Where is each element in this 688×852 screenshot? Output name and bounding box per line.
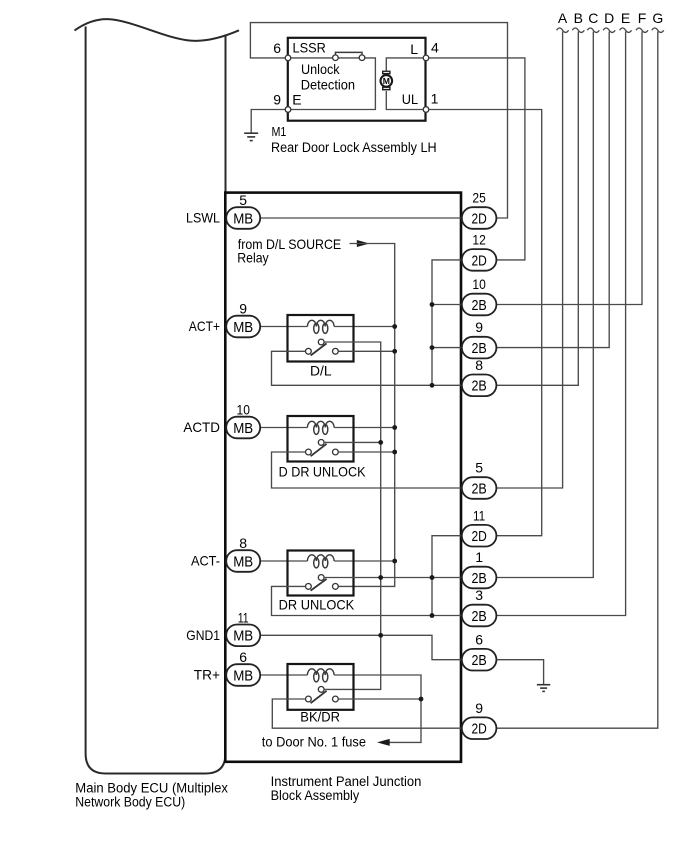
wire ACT- coil row: [260, 560, 394, 562]
connector 2B pin 1: [462, 549, 497, 588]
svg-text:2B: 2B: [471, 297, 486, 314]
svg-text:10: 10: [237, 402, 251, 418]
label from D/L SOURCE Relay: [237, 236, 341, 266]
svg-text:2B: 2B: [471, 570, 486, 587]
wire ACT+ coil row: [260, 326, 394, 328]
svg-text:2B: 2B: [471, 378, 486, 395]
relay D DR UNLOCK coil: [307, 421, 334, 427]
connector MB pin 6 (TR+): [226, 649, 260, 686]
svg-text:Main Body ECU (Multiplex: Main Body ECU (Multiplex: [75, 781, 228, 796]
pin 9 E: [273, 91, 301, 107]
wire BK/DR right contact: [338, 698, 421, 700]
svg-text:2D: 2D: [471, 528, 486, 545]
svg-text:MB: MB: [233, 628, 253, 645]
svg-text:1: 1: [431, 91, 439, 107]
svg-text:3: 3: [475, 587, 483, 603]
unlock detection switch contact circles: [333, 55, 365, 61]
motor M wire branch: [386, 58, 424, 110]
pin 6 LSSR: [273, 40, 326, 56]
svg-text:1: 1: [475, 549, 483, 565]
svg-text:A: A: [558, 10, 568, 26]
svg-text:8: 8: [475, 357, 483, 373]
node C (vertical line with break): [496, 10, 599, 578]
svg-text:DR UNLOCK: DR UNLOCK: [279, 597, 355, 613]
connector 2B pin 10: [462, 276, 497, 315]
wire pin1 UL to 11/2D: [426, 110, 542, 536]
wire D/L right contact: [338, 350, 394, 352]
svg-text:to Door No. 1 fuse: to Door No. 1 fuse: [262, 733, 366, 749]
svg-text:D DR UNLOCK: D DR UNLOCK: [279, 463, 366, 479]
svg-text:11: 11: [473, 507, 485, 523]
svg-text:MB: MB: [233, 210, 253, 227]
ground symbol (M1): [244, 133, 258, 140]
svg-text:Unlock: Unlock: [301, 61, 340, 77]
svg-text:9: 9: [239, 301, 247, 317]
relay D DR UNLOCK switch: [306, 440, 339, 457]
svg-text:GND1: GND1: [186, 627, 220, 643]
svg-text:Detection: Detection: [301, 76, 355, 92]
svg-text:Rear Door Lock Assembly LH: Rear Door Lock Assembly LH: [271, 140, 437, 155]
node E (vertical line with break): [496, 10, 631, 616]
motor M symbol: [381, 71, 393, 91]
connector 2B pin 6: [462, 631, 497, 670]
svg-text:ACT+: ACT+: [189, 318, 220, 334]
svg-text:9: 9: [475, 319, 483, 335]
svg-text:E: E: [292, 91, 301, 107]
wire DR UNLOCK left contact wrap to 3/2B: [272, 586, 462, 615]
connector 2B pin 8: [462, 357, 497, 396]
svg-text:2B: 2B: [471, 608, 486, 625]
svg-text:C: C: [588, 10, 598, 26]
junction dots: [378, 302, 434, 701]
svg-text:BK/DR: BK/DR: [300, 708, 340, 724]
svg-text:2D: 2D: [471, 210, 486, 227]
svg-text:MB: MB: [233, 553, 253, 570]
svg-text:Instrument Panel Junction: Instrument Panel Junction: [271, 774, 422, 789]
connector 2B pin 9: [462, 319, 497, 358]
svg-text:4: 4: [431, 40, 439, 56]
rear door lock assembly M1 outer box: [288, 38, 426, 121]
relay BK/DR box: [288, 664, 354, 710]
unlock detection inner box: [288, 58, 375, 110]
arrow from D/L SOURCE: [357, 240, 370, 247]
svg-text:12: 12: [472, 232, 486, 248]
pin 1 UL: [402, 91, 439, 108]
relay BK/DR switch: [306, 687, 339, 704]
connector MB pin 8 (ACT-): [226, 535, 260, 572]
connector 2D pin 11: [462, 507, 497, 546]
svg-text:Relay: Relay: [237, 250, 268, 266]
Instrument Panel Junction Block box: [225, 193, 461, 762]
svg-text:MB: MB: [233, 667, 253, 684]
svg-text:2D: 2D: [471, 252, 486, 269]
svg-text:ACT-: ACT-: [191, 553, 220, 569]
node F (vertical line with break): [496, 10, 648, 305]
relay D/L coil: [307, 320, 334, 326]
relay DR UNLOCK box: [288, 551, 354, 596]
unlock detection switch bridge: [335, 52, 362, 55]
wire 6/2B to ground: [496, 660, 543, 685]
svg-text:2B: 2B: [471, 480, 486, 497]
svg-text:L: L: [410, 41, 418, 57]
relay D/L box: [288, 315, 354, 362]
connector MB pin 9 (ACT+): [226, 301, 260, 338]
wire pin6 wrap to 25/2D: [250, 23, 507, 218]
ground symbol (6/2B): [537, 685, 550, 692]
wire D/L top contact to ground chain (down to BK/DR): [324, 342, 381, 689]
node G (vertical line with break): [496, 10, 663, 728]
relay BK/DR coil: [307, 669, 334, 675]
wire 12/2D inner chain down to 8/2B row: [432, 260, 462, 385]
svg-text:E: E: [621, 10, 630, 26]
svg-text:MB: MB: [233, 420, 253, 437]
connector MB pin 10 (ACTD): [226, 402, 260, 439]
svg-text:10: 10: [472, 276, 486, 292]
wire D DR UNLOCK right contact: [338, 451, 394, 453]
svg-text:M: M: [383, 76, 390, 86]
label Main Body ECU: [75, 781, 228, 810]
wire pin9 to ground: [251, 110, 288, 133]
svg-text:M1: M1: [272, 124, 287, 139]
svg-text:MB: MB: [233, 319, 253, 336]
wire from D/L SOURCE feed chain: [338, 244, 395, 587]
node B (vertical line with break): [496, 10, 584, 385]
svg-text:8: 8: [239, 535, 247, 551]
svg-text:5: 5: [239, 192, 247, 208]
wire pin4 L to 12/2D: [426, 58, 525, 260]
svg-text:F: F: [638, 10, 647, 26]
svg-text:UL: UL: [402, 91, 418, 107]
label Unlock Detection: [301, 61, 355, 92]
wire GND1 row to 6/2B: [260, 635, 461, 659]
svg-text:TR+: TR+: [194, 667, 220, 683]
relay D DR UNLOCK box: [288, 416, 354, 462]
svg-text:25: 25: [472, 190, 486, 206]
svg-text:9: 9: [273, 91, 281, 107]
relay DR UNLOCK switch: [306, 575, 339, 591]
wire D DR UNLOCK top contact: [324, 441, 381, 443]
node A (vertical line with break): [496, 10, 568, 488]
wire ACTD coil row: [260, 427, 394, 429]
connector MB pin 5 (LSWL): [226, 192, 260, 229]
svg-text:LSSR: LSSR: [293, 40, 326, 56]
svg-text:2D: 2D: [471, 721, 486, 738]
svg-text:2B: 2B: [471, 340, 486, 357]
svg-text:B: B: [574, 10, 583, 26]
svg-text:6: 6: [475, 631, 483, 647]
wire BK/DR left contact wrap to 9/2D: [272, 699, 461, 728]
svg-text:2B: 2B: [471, 652, 486, 669]
connector 2B pin 3: [462, 587, 497, 626]
wire DR UNLOCK top contact to 1/2B: [324, 577, 462, 579]
connector 2D pin 25: [462, 190, 497, 229]
svg-text:9: 9: [475, 700, 483, 716]
svg-text:G: G: [652, 10, 663, 26]
connector 2D pin 9: [462, 700, 497, 739]
connector 2D pin 12: [462, 232, 497, 271]
svg-text:Block Assembly: Block Assembly: [271, 788, 360, 803]
node D (vertical line with break): [496, 10, 615, 348]
svg-text:D: D: [604, 10, 614, 26]
svg-text:D/L: D/L: [310, 363, 332, 379]
svg-text:ACTD: ACTD: [183, 419, 220, 435]
wire D DR UNLOCK left contact wrap to 5/2B: [272, 452, 462, 488]
svg-text:11: 11: [238, 609, 249, 625]
connector 2B pin 5: [462, 460, 497, 499]
svg-text:LSWL: LSWL: [186, 210, 220, 226]
M1 pin circles: [285, 55, 429, 112]
arrow to Door No. 1 fuse: [377, 739, 390, 746]
connector MB pin 11 (GND1): [226, 609, 260, 646]
wire 11/2D inner chain down to 3/2B row: [432, 536, 462, 616]
relay DR UNLOCK coil: [307, 555, 334, 561]
relay D/L switch: [306, 339, 339, 355]
svg-text:5: 5: [475, 460, 483, 476]
svg-text:6: 6: [239, 649, 247, 665]
wire TR+ coil row to door fuse chain: [260, 675, 421, 742]
svg-text:6: 6: [273, 40, 281, 56]
svg-text:Network Body ECU): Network Body ECU): [75, 795, 185, 810]
wire D/L left contact wrap to 8/2B: [272, 351, 462, 385]
Main Body ECU box (left, wavy-top rounded container): [75, 19, 240, 773]
wire LSWL row to 25/2D: [260, 217, 461, 219]
label Instrument Panel Junction Block Assembly: [271, 774, 422, 803]
pin 4 L: [410, 40, 439, 58]
